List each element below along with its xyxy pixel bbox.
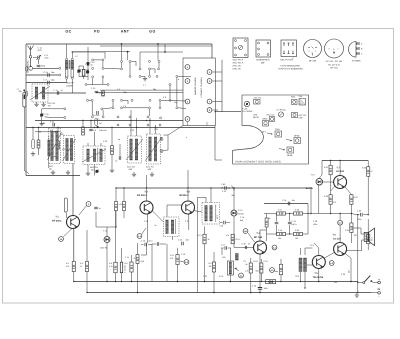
detector diode — [231, 210, 237, 216]
svg-text:6n8: 6n8 — [240, 219, 243, 222]
resistor x351 — [350, 195, 353, 205]
svg-text:C 30: C 30 — [41, 122, 45, 125]
wire IF to T3 base — [172, 237, 174, 241]
resistor tone vert — [265, 218, 268, 227]
svg-text:4,7u: 4,7u — [149, 240, 153, 243]
svg-text:C 14: C 14 — [125, 256, 129, 259]
svg-text:C 4b: C 4b — [252, 285, 256, 288]
wire T7 emitter — [331, 186, 352, 195]
svg-text:R 17: R 17 — [278, 209, 282, 212]
wire matrix d7 — [123, 107, 149, 109]
wire matrix down4 — [176, 78, 178, 107]
legend coil pack ACC text — [233, 59, 244, 71]
svg-text:1n: 1n — [99, 207, 101, 210]
wire x222 drop2 — [221, 248, 223, 255]
reglages top right screws — [291, 95, 306, 105]
svg-text:10k: 10k — [209, 265, 212, 268]
wire matrix d6 — [103, 108, 112, 109]
wire x311 vert — [310, 187, 311, 214]
svg-text:120: 120 — [354, 234, 357, 237]
jack connector upper — [26, 67, 28, 72]
wire x368 — [367, 161, 369, 215]
wire rail B — [26, 127, 215, 129]
svg-text:MF3B: MF3B — [287, 154, 293, 157]
wire tone right vert — [307, 204, 308, 235]
svg-text:R 18: R 18 — [295, 209, 299, 212]
wire T2b — [137, 243, 138, 293]
svg-text:ACC GO: ACC GO — [127, 166, 135, 169]
resistor x351 low — [350, 223, 353, 233]
transformer RED MF-CADRE — [65, 60, 73, 69]
connector contact 2 — [185, 79, 190, 84]
wire T2 collector to IF — [152, 205, 182, 222]
label T2 — [137, 190, 148, 197]
svg-text:1: 1 — [371, 239, 372, 242]
transistor T1 — [67, 216, 80, 229]
svg-text:MF 3: MF 3 — [216, 215, 219, 219]
wire row C3 — [26, 82, 67, 84]
wire osc boxes top — [131, 110, 156, 136]
wire x261 — [260, 259, 262, 282]
svg-text:BF 195: BF 195 — [309, 60, 317, 63]
wire matrix rail pair — [96, 90, 183, 92]
contact row1 — [59, 67, 61, 69]
node 1 circle — [79, 202, 91, 215]
label C7b — [45, 113, 49, 119]
value labels — [41, 55, 373, 284]
wire T4 emitter — [259, 254, 260, 293]
ground left cluster — [32, 152, 34, 154]
resistor tone r2 — [294, 212, 303, 215]
svg-text:b: b — [178, 78, 179, 81]
ferrite antenna coil box — [32, 84, 56, 108]
wire top rail second — [100, 45, 212, 47]
wire r2 — [123, 188, 125, 218]
trimmer MF1 — [95, 170, 99, 174]
svg-text:R 25: R 25 — [362, 167, 366, 170]
trimmer arrow on rail — [232, 186, 235, 191]
cap C11 — [54, 89, 64, 95]
svg-text:C 9: C 9 — [123, 105, 126, 108]
contact row2 — [59, 74, 61, 76]
svg-text:R 13: R 13 — [219, 275, 223, 278]
wire clavier exit right — [215, 111, 216, 112]
resistor tone r4 — [294, 232, 303, 235]
coil box ACC OC — [49, 128, 61, 164]
resistor x115 low — [114, 262, 117, 273]
svg-text:BOBINAGES: BOBINAGES — [257, 59, 270, 62]
connector contact 8 — [207, 108, 212, 113]
wire matrix to top rail — [121, 43, 166, 60]
svg-text:50u: 50u — [256, 270, 259, 273]
legend BF195 case outline — [304, 40, 322, 58]
trimmer in MF1 box — [82, 149, 106, 162]
wire x281 low — [280, 259, 281, 282]
svg-text:C 5: C 5 — [117, 88, 120, 91]
svg-text:0,47u: 0,47u — [292, 223, 297, 226]
label C1a — [38, 47, 43, 53]
resistor x330 mid — [329, 195, 332, 205]
wire matrix v1 — [102, 61, 104, 67]
cap mid 1 — [89, 129, 97, 132]
label T6 — [332, 234, 341, 241]
svg-text:ACC GO-A: ACC GO-A — [233, 62, 244, 65]
wire top rail — [26, 43, 212, 45]
label zener — [306, 174, 316, 190]
trimmer C7b — [40, 109, 44, 121]
svg-text:AC 127 E Q: AC 127 E Q — [328, 63, 340, 66]
cap C16 — [141, 240, 152, 247]
label RED MF-CADRE — [66, 82, 74, 88]
node 5.3 circle — [329, 261, 334, 266]
cap C17 — [221, 244, 231, 250]
svg-text:100u: 100u — [264, 287, 268, 290]
svg-text:2,2k: 2,2k — [141, 260, 145, 263]
svg-text:5n: 5n — [248, 243, 250, 246]
svg-text:4,7k: 4,7k — [245, 270, 249, 273]
trimmer in OSC GO — [126, 139, 143, 160]
wire rail A — [35, 120, 183, 122]
cap C7b — [288, 213, 297, 235]
legend coil pack ACC pins — [235, 40, 247, 57]
svg-text:ANT: ANT — [121, 30, 130, 34]
svg-text:ACC PO-A: ACC PO-A — [233, 59, 244, 62]
wire left edge vertical — [25, 44, 27, 176]
resistor R T1 emitter — [72, 262, 75, 272]
resistor x281 low — [279, 264, 282, 275]
cap C2a — [44, 71, 56, 77]
svg-text:C 24: C 24 — [264, 260, 268, 263]
resistor T1 area r2 — [123, 202, 126, 211]
wire x167 drop — [166, 244, 168, 282]
svg-text:R 5: R 5 — [80, 262, 83, 265]
reglages ACC OC screw — [254, 96, 262, 104]
legend OSC PO-GO pins — [283, 43, 294, 54]
svg-text:TB-0076b: TB-0076b — [313, 276, 324, 279]
svg-text:BF 7x8: BF 7x8 — [331, 66, 339, 69]
node 1A circle — [59, 229, 72, 242]
wire volume — [230, 248, 231, 282]
svg-text:30p: 30p — [153, 88, 156, 91]
svg-text:ACC OC: ACC OC — [254, 96, 262, 99]
wire 4.3 drop — [177, 248, 178, 282]
wire matrix elbow1 — [131, 61, 136, 66]
wire trimmer row upper — [42, 108, 66, 110]
svg-text:C 21: C 21 — [185, 220, 189, 223]
resistor left pill 1 — [32, 139, 35, 149]
svg-text:30 n: 30 n — [348, 269, 351, 273]
wire T3 collector to IF2 — [194, 211, 203, 213]
wire matrix elbow2 — [151, 69, 155, 73]
svg-text:TO-92Nb: TO-92Nb — [352, 60, 362, 63]
connector contact 3 — [207, 79, 212, 84]
svg-text:15p: 15p — [174, 101, 177, 104]
wire tone rail top — [264, 203, 308, 205]
coil box OSC GO — [128, 136, 142, 163]
svg-text:TM: TM — [48, 105, 51, 108]
cap C31 — [50, 121, 55, 127]
wire matrix down1 — [112, 102, 114, 107]
svg-text:1,2k: 1,2k — [119, 203, 123, 206]
wire T1 emitter to bus — [73, 272, 74, 283]
reglages MF screw D — [279, 147, 294, 157]
wire detector — [233, 187, 234, 228]
wire matrix left drops — [92, 78, 103, 116]
ground ferrite box — [34, 102, 45, 107]
wire MF1 feeds — [88, 132, 101, 176]
svg-text:C4a 2u2: C4a 2u2 — [99, 129, 107, 132]
wire x205 — [204, 227, 205, 283]
reglages ACC PO screw — [292, 113, 307, 120]
svg-text:OSC PO-GO: OSC PO-GO — [280, 59, 293, 62]
label T4 — [254, 232, 262, 239]
svg-text:MF2B: MF2B — [294, 135, 300, 138]
svg-text:c: c — [315, 50, 316, 53]
diode zener — [316, 178, 323, 185]
power switch — [363, 276, 378, 284]
transistor T2 — [140, 201, 153, 214]
wire T2 vert — [146, 175, 149, 243]
transistor T6 — [334, 243, 347, 256]
svg-text:1M: 1M — [99, 122, 102, 125]
wire T1 base — [65, 212, 68, 218]
svg-text:3V: 3V — [377, 288, 380, 291]
svg-text:RED MF: RED MF — [66, 82, 74, 85]
cap C3 — [44, 79, 56, 85]
resistor x214 low — [212, 262, 215, 272]
svg-text:C 32: C 32 — [103, 140, 107, 143]
svg-text:ACC OC: ACC OC — [233, 65, 242, 68]
wire x330 down — [330, 204, 331, 214]
svg-text:BF2A: BF2A — [263, 118, 269, 121]
cap R1 2k2 — [93, 111, 100, 117]
wire long vertical x222 — [215, 60, 241, 112]
antenna — [28, 46, 34, 59]
cap T1 area — [94, 207, 101, 210]
transistor T7 — [334, 176, 347, 189]
reglages MF screw B — [262, 128, 282, 137]
wire matrix top feed — [105, 43, 183, 68]
reglages MF screw C — [286, 135, 301, 144]
ground osc boxes — [132, 172, 154, 177]
speaker — [364, 228, 374, 245]
svg-text:C 10: C 10 — [91, 61, 95, 64]
svg-text:OC: OC — [65, 30, 71, 34]
svg-text:5k: 5k — [246, 263, 248, 266]
reglages box outline — [233, 95, 309, 164]
svg-text:C 33: C 33 — [130, 129, 134, 132]
svg-text:1k: 1k — [80, 265, 82, 268]
node 4A circle — [243, 229, 254, 242]
wire rail y188 — [116, 187, 311, 189]
coil box MF1 — [83, 146, 105, 165]
trimmer in ferrite box — [30, 86, 50, 100]
IF transformer after T3 — [202, 203, 220, 225]
wire matrix down3 — [169, 86, 171, 99]
wire x214 — [213, 252, 214, 293]
wire row C11 — [40, 92, 86, 94]
wire T5 verts — [314, 243, 319, 282]
wire switch feed — [357, 282, 363, 283]
svg-text:OSC OC: OSC OC — [267, 114, 275, 117]
svg-text:BF 200-3: BF 200-3 — [137, 194, 147, 197]
svg-text:33n: 33n — [19, 90, 22, 93]
wire x357 vert — [357, 214, 358, 293]
wire x115 low — [115, 211, 116, 283]
svg-text:50p: 50p — [232, 194, 235, 197]
svg-text:GO: GO — [91, 168, 95, 171]
svg-text:-: - — [379, 296, 380, 299]
wire x330 — [330, 160, 331, 195]
wire rail B drop — [215, 126, 222, 161]
coil box OSC PO — [147, 134, 161, 164]
trimmer in OSC OC box — [63, 139, 76, 161]
transformer formers — [65, 70, 73, 80]
trimmer cluster circle — [77, 69, 81, 73]
resistor x368 low — [367, 234, 370, 244]
wire tone rail ext — [352, 214, 360, 215]
ground MF1 — [87, 171, 89, 173]
svg-text:R1 2k2: R1 2k2 — [93, 114, 100, 117]
label C10 — [91, 61, 95, 67]
node 4.1b circle — [239, 273, 244, 278]
ground trimmer C7b — [41, 121, 43, 123]
svg-text:80p: 80p — [124, 91, 127, 94]
resistor det load — [231, 234, 234, 244]
svg-text:( COMMUT. CLAVIER ): ( COMMUT. CLAVIER ) — [200, 77, 203, 98]
cap C tone mid — [275, 214, 279, 235]
svg-text:10n: 10n — [186, 239, 189, 242]
cap C1b — [220, 221, 231, 228]
svg-text:1k: 1k — [269, 217, 271, 220]
wire tone row1 — [264, 213, 352, 215]
AGC diode — [95, 119, 108, 133]
electrolytic cluster — [82, 70, 85, 77]
resistor x368 top — [367, 167, 370, 177]
legend TO-case outline — [349, 42, 356, 58]
svg-text:(CAPOT ET BOBINAGE): (CAPOT ET BOBINAGE) — [279, 67, 304, 70]
wire speaker — [346, 228, 365, 251]
svg-text:C 7b: C 7b — [45, 113, 49, 116]
svg-text:470: 470 — [62, 148, 65, 151]
wire T4 base — [234, 228, 254, 248]
svg-text:1k: 1k — [208, 238, 210, 241]
svg-text:P 1: P 1 — [244, 260, 247, 263]
wire matrix down2 — [159, 102, 161, 107]
cap C4b — [252, 284, 268, 293]
rail junction dots — [32, 120, 234, 189]
svg-text:C 19: C 19 — [181, 253, 185, 256]
wire T7 base — [322, 181, 334, 183]
wire trimmer row lower — [48, 117, 66, 119]
wire left cluster — [33, 128, 58, 169]
svg-text:RED PO: RED PO — [90, 166, 98, 169]
label ACC OC box — [49, 165, 54, 171]
wire matrix v3 — [127, 52, 129, 60]
legend coil pack ACC outline — [233, 38, 248, 58]
cap 150p — [37, 65, 46, 68]
wire T5-T6 couple — [307, 253, 335, 266]
svg-text:10k: 10k — [295, 237, 298, 240]
svg-text:C 8: C 8 — [163, 96, 166, 99]
svg-text:R 22: R 22 — [324, 195, 328, 198]
svg-text:L 2: L 2 — [75, 55, 78, 58]
svg-text:R 9: R 9 — [134, 257, 137, 260]
resistor 4.3 area — [176, 255, 179, 265]
wire matrix v6 — [158, 63, 160, 68]
svg-text:ACC PO: ACC PO — [299, 114, 307, 117]
svg-text:C 7: C 7 — [143, 84, 146, 87]
svg-text:REG: REG — [291, 96, 296, 99]
svg-text:1n: 1n — [115, 160, 117, 163]
svg-text:C 18: C 18 — [144, 220, 148, 223]
switch matrix contacts — [85, 59, 178, 126]
wire cluster links — [79, 66, 88, 79]
svg-text:R 3: R 3 — [97, 118, 100, 121]
svg-text:ACC PO: ACC PO — [146, 166, 154, 169]
cap 33n label — [17, 88, 26, 94]
wire row 150p — [33, 67, 59, 69]
trimmer in ACC OC box — [48, 132, 62, 160]
cap C2b — [282, 199, 295, 205]
connector contact 7 — [207, 99, 212, 104]
node 1.1 circle — [137, 228, 146, 238]
svg-text:AMENEE CLAVIER: AMENEE CLAVIER — [194, 77, 197, 95]
wire x222 top — [212, 72, 222, 110]
svg-text:5p: 5p — [91, 64, 93, 67]
legend TO-case pins — [356, 43, 363, 56]
cap T4 base — [242, 243, 251, 250]
svg-text:MF1: MF1 — [262, 131, 266, 134]
legend OSC PO-GO outline — [281, 40, 297, 57]
wire matrix v2 — [121, 63, 123, 68]
svg-text:AC 167: AC 167 — [333, 238, 342, 241]
resistor tone r3 — [277, 232, 286, 235]
svg-text:PO: PO — [94, 30, 100, 34]
svg-text:CV PO AC: CV PO AC — [277, 109, 287, 112]
border frame — [3, 29, 394, 304]
cap C15 — [178, 239, 189, 246]
legend bobinages MF pins — [258, 42, 270, 56]
svg-text:100u: 100u — [313, 223, 317, 226]
svg-text:22k: 22k — [61, 133, 64, 136]
resistor tone r1 — [277, 212, 286, 215]
antenna jack pill — [23, 92, 26, 107]
svg-text:C 6: C 6 — [85, 63, 88, 66]
battery plus terminal — [377, 277, 380, 291]
resistor in bus — [266, 280, 276, 284]
reglages MF screw A — [253, 114, 269, 127]
label C4 — [45, 54, 50, 60]
svg-text:BF 200.L: BF 200.L — [52, 220, 62, 223]
resistor left pill 2 — [37, 140, 40, 148]
wire T1 emitter down — [73, 229, 75, 262]
wire antenna down — [30, 58, 32, 66]
ground coil boxes — [51, 170, 70, 175]
wire antenna jack down — [24, 90, 29, 173]
legend BF195 pins — [308, 47, 317, 56]
wire local rail 131 — [35, 131, 60, 132]
legend AC case pins — [329, 48, 339, 55]
svg-text:R 4: R 4 — [66, 262, 69, 265]
svg-text:R 21: R 21 — [324, 166, 328, 169]
svg-text:BF 7xB: BF 7xB — [254, 236, 262, 239]
IF transformer T2-T3 — [164, 217, 180, 237]
battery minus terminal — [355, 292, 381, 299]
svg-text:470: 470 — [66, 265, 69, 268]
resistor R2 in matrix — [102, 91, 105, 96]
svg-text:T.20A: T.20A — [275, 128, 281, 131]
